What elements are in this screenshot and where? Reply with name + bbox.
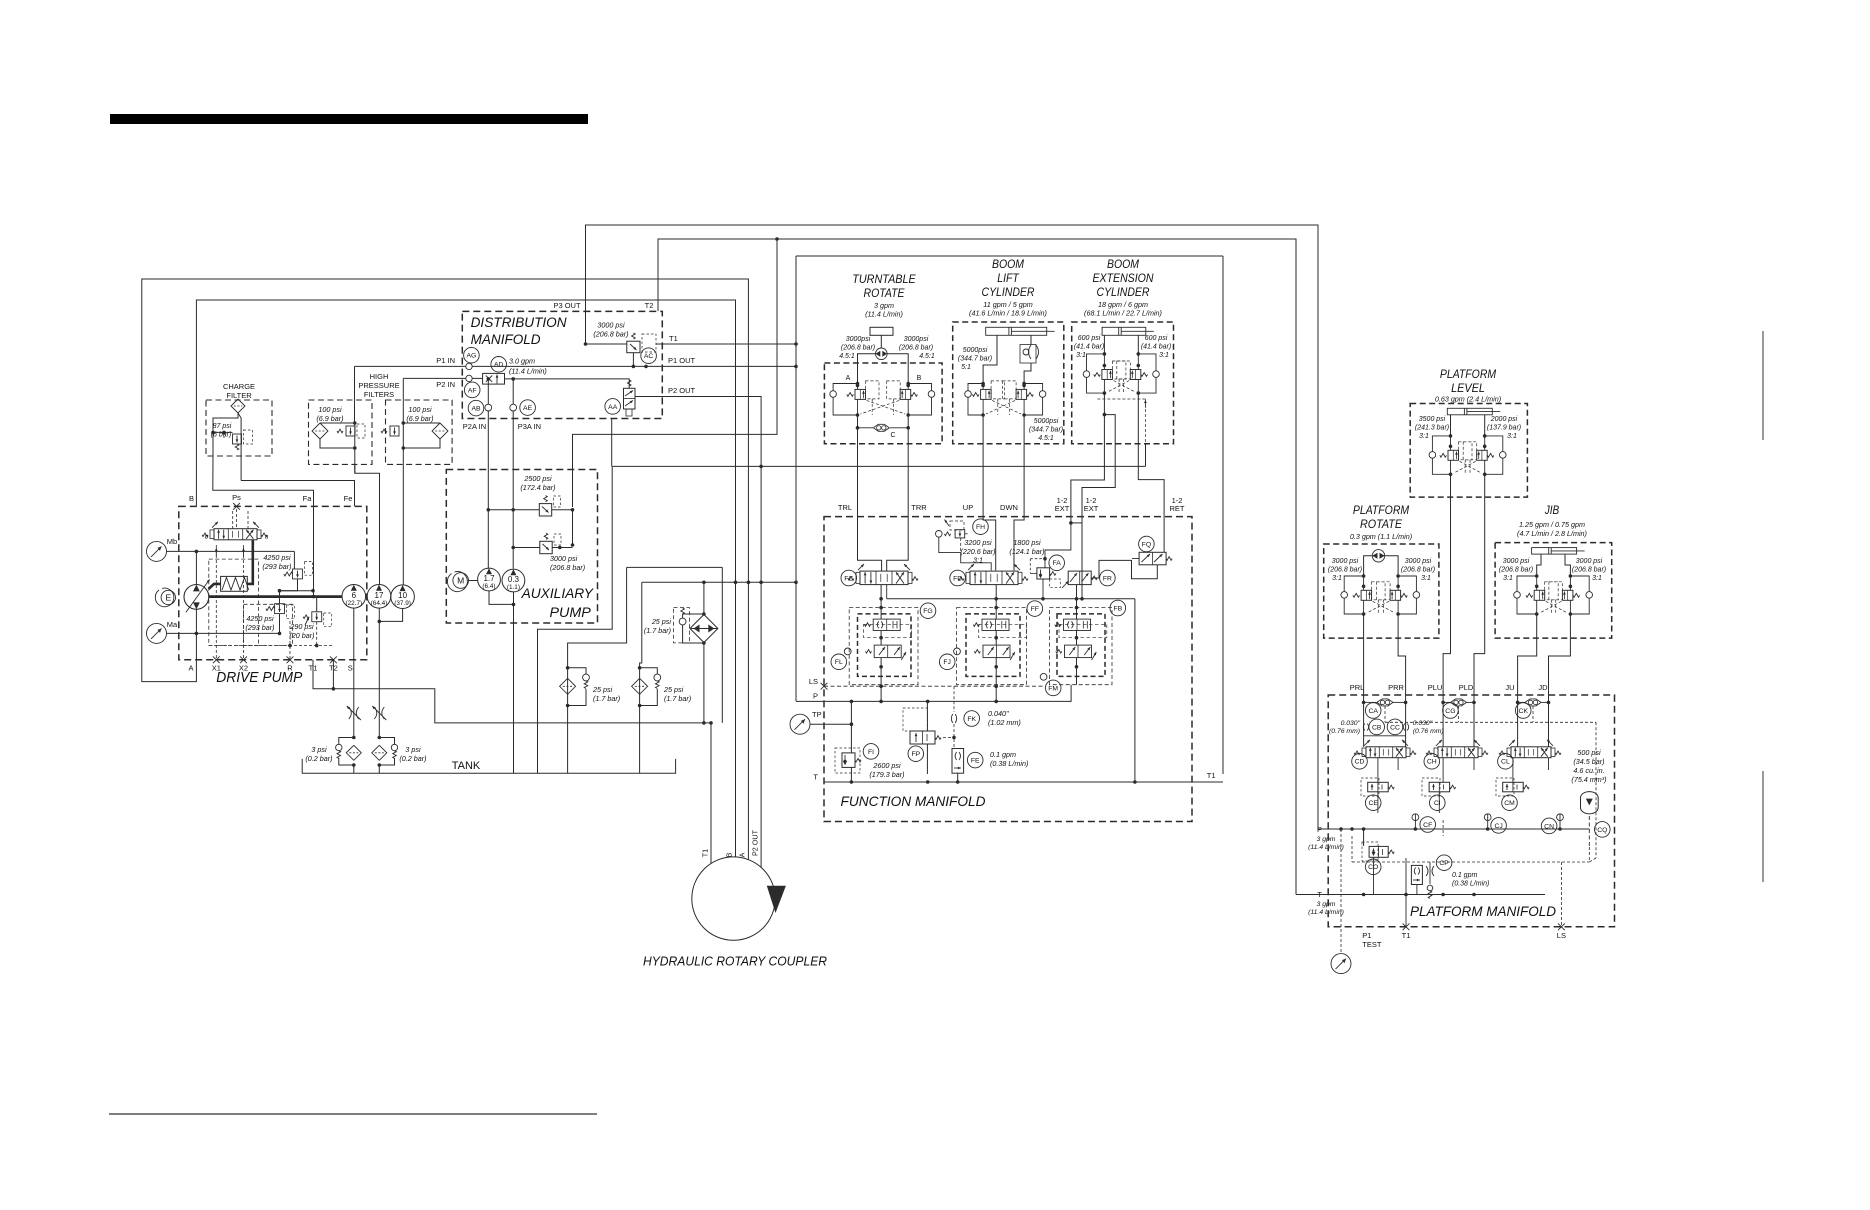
svg-text:P2 OUT: P2 OUT bbox=[668, 386, 696, 395]
HP1 internals bbox=[354, 366, 356, 423]
svg-text:1.25 gpm / 0.75 gpm: 1.25 gpm / 0.75 gpm bbox=[1519, 520, 1585, 529]
port circle P2A bbox=[485, 404, 492, 411]
circle CN bbox=[1541, 818, 1557, 834]
circle FQ bbox=[1139, 536, 1155, 552]
svg-text:4.6 cu. in.: 4.6 cu. in. bbox=[1573, 766, 1604, 775]
electric motor E bbox=[161, 590, 175, 604]
svg-text:3:1: 3:1 bbox=[1419, 433, 1429, 440]
wire 2500 rail bbox=[488, 509, 539, 511]
svg-text:TURNTABLE: TURNTABLE bbox=[852, 272, 916, 286]
CB valve FB top bbox=[1064, 619, 1091, 630]
wire PLD column bbox=[1474, 474, 1485, 747]
svg-text:A: A bbox=[738, 852, 747, 857]
relief valve charge 87psi bbox=[233, 434, 242, 444]
circle AG bbox=[464, 347, 480, 363]
svg-text:T: T bbox=[813, 773, 818, 782]
svg-text:X1: X1 bbox=[212, 664, 221, 673]
svg-text:4250 psi: 4250 psi bbox=[246, 614, 274, 623]
cylinder jib bbox=[1532, 548, 1577, 555]
right margin tick lower bbox=[1762, 771, 1764, 882]
svg-text:Ma: Ma bbox=[167, 620, 178, 629]
circle CA bbox=[1365, 703, 1381, 719]
tank symbol bbox=[302, 759, 675, 773]
junction P1 OUT on left edge bbox=[794, 365, 798, 369]
wire HP1 to pump17 bbox=[355, 464, 380, 584]
svg-text:TRR: TRR bbox=[911, 503, 927, 512]
gauge Ma bbox=[147, 623, 167, 643]
wire 290 column bbox=[316, 597, 318, 612]
circle FF bbox=[1027, 601, 1043, 617]
boom extension box bbox=[1072, 322, 1174, 444]
svg-text:3000 psi: 3000 psi bbox=[597, 321, 625, 330]
svg-text:(4.7 L/min / 2.8 L/min): (4.7 L/min / 2.8 L/min) bbox=[1517, 529, 1587, 538]
svg-text:3000psi: 3000psi bbox=[846, 336, 871, 343]
wire T rail platform bbox=[1296, 894, 1545, 896]
svg-text:290 psi: 290 psi bbox=[289, 622, 314, 631]
svg-text:P1 IN: P1 IN bbox=[436, 356, 455, 365]
wire P3A column bbox=[512, 379, 514, 404]
svg-text:6: 6 bbox=[352, 591, 357, 600]
orifice crossbar PR bbox=[1364, 735, 1406, 737]
wire drive T1 return to coupler bbox=[313, 660, 711, 864]
svg-text:Fe: Fe bbox=[344, 494, 353, 503]
dashed servo pilot box 1 bbox=[209, 559, 259, 646]
title bar bbox=[110, 114, 588, 124]
svg-text:(11.4 L/min): (11.4 L/min) bbox=[1308, 844, 1344, 851]
CB valve FF bottom bbox=[983, 645, 1010, 658]
wire pair1 to tank bbox=[353, 765, 355, 773]
CB valve FG bottom bbox=[874, 645, 901, 658]
wire FK column dashed bbox=[953, 686, 955, 712]
svg-text:(34.5 bar): (34.5 bar) bbox=[1573, 757, 1604, 766]
wire mid return drop to tank bbox=[538, 466, 613, 773]
svg-text:CH: CH bbox=[1427, 759, 1437, 766]
circle FI bbox=[863, 744, 879, 760]
svg-text:0.63 gpm (2.4 L/min): 0.63 gpm (2.4 L/min) bbox=[1435, 395, 1501, 404]
circle AF bbox=[464, 382, 480, 398]
wire CO column bbox=[1363, 829, 1365, 846]
svg-text:0.030": 0.030" bbox=[1413, 720, 1433, 727]
svg-text:EXTENSION: EXTENSION bbox=[1093, 271, 1154, 285]
check CN bbox=[1557, 814, 1564, 821]
svg-text:JIB: JIB bbox=[1544, 503, 1559, 517]
svg-text:(172.4 bar): (172.4 bar) bbox=[520, 483, 555, 492]
svg-text:87 psi: 87 psi bbox=[213, 423, 232, 430]
svg-text:FM: FM bbox=[1048, 685, 1058, 692]
wire EXT join bbox=[1071, 522, 1082, 524]
cylinder platform level bbox=[1447, 408, 1492, 415]
counterbalance cluster FB outer bbox=[1049, 608, 1112, 685]
svg-text:BOOM: BOOM bbox=[1107, 257, 1139, 271]
circle CB bbox=[1369, 719, 1385, 735]
wire charge to Fa bbox=[213, 432, 314, 506]
flow control AD bbox=[483, 373, 505, 384]
gauge TP bbox=[790, 714, 810, 734]
wire PL branches bbox=[1450, 415, 1452, 436]
dashed BE pilot rail bbox=[1097, 398, 1145, 400]
svg-text:25 psi: 25 psi bbox=[592, 685, 613, 694]
throttle valve pump17 drain bbox=[374, 707, 384, 719]
drive pump box bbox=[179, 506, 367, 659]
wire pump17 drain bbox=[378, 608, 380, 737]
relief valve 290 psi bbox=[312, 612, 322, 622]
dashed FP pilot bbox=[903, 708, 927, 731]
svg-text:FG: FG bbox=[923, 608, 932, 615]
wire PR branches bbox=[1364, 556, 1373, 576]
orifice FK bbox=[951, 714, 956, 723]
svg-text:AUXILIARY: AUXILIARY bbox=[521, 585, 595, 601]
wire Ma bbox=[166, 632, 279, 634]
filter bidirectional bypass bbox=[690, 615, 718, 643]
svg-text:3000 psi: 3000 psi bbox=[1405, 558, 1432, 565]
wire pair A column bbox=[567, 668, 569, 773]
svg-text:P2 OUT: P2 OUT bbox=[751, 829, 760, 856]
valve FC bbox=[860, 571, 908, 585]
circle FR bbox=[1100, 570, 1116, 586]
function manifold box bbox=[824, 517, 1192, 822]
HP filter box 2 bbox=[386, 400, 453, 464]
valve CH bbox=[1438, 747, 1478, 758]
circle FD bbox=[950, 570, 966, 586]
svg-text:(75.4 mm³): (75.4 mm³) bbox=[1571, 775, 1606, 784]
circle CK bbox=[1515, 703, 1531, 719]
svg-text:25 psi: 25 psi bbox=[651, 617, 672, 626]
svg-text:25 psi: 25 psi bbox=[663, 685, 684, 694]
counterbalance cluster FG outer bbox=[849, 608, 918, 685]
svg-text:FR: FR bbox=[1103, 575, 1112, 582]
port circle FM bbox=[1040, 673, 1047, 680]
wire AC to P1 bbox=[632, 353, 634, 367]
svg-text:DWN: DWN bbox=[1000, 503, 1018, 512]
LS port mark bbox=[821, 683, 828, 690]
wire P1 test dashed bbox=[1340, 829, 1342, 953]
wire function supply left edge bbox=[795, 256, 797, 701]
wire bypass drop x722 bbox=[721, 567, 723, 723]
shuttle CK bbox=[1525, 699, 1541, 706]
wire T riser bbox=[1134, 599, 1136, 782]
relief valve HP1 bbox=[346, 426, 355, 436]
junction T2 stub bbox=[332, 687, 336, 691]
svg-text:(1.02 mm): (1.02 mm) bbox=[988, 718, 1021, 727]
circle CQ bbox=[1595, 822, 1611, 838]
svg-text:P2 IN: P2 IN bbox=[436, 380, 455, 389]
wire EXT column 1 bbox=[1071, 393, 1105, 523]
svg-text:P2A IN: P2A IN bbox=[463, 422, 486, 431]
svg-text:CB: CB bbox=[1372, 724, 1382, 731]
dashed LS collector bbox=[1351, 836, 1353, 862]
platform level box bbox=[1410, 404, 1527, 498]
svg-text:PRESSURE: PRESSURE bbox=[358, 381, 399, 390]
svg-text:5:1: 5:1 bbox=[961, 364, 971, 371]
svg-text:E: E bbox=[165, 593, 171, 603]
svg-text:(41.4 bar): (41.4 bar) bbox=[1141, 344, 1171, 351]
svg-text:T1: T1 bbox=[1207, 771, 1216, 780]
svg-text:FK: FK bbox=[967, 716, 976, 723]
svg-text:4.5:1: 4.5:1 bbox=[839, 353, 855, 360]
svg-text:CHARGE: CHARGE bbox=[223, 382, 255, 391]
wire Fa column bbox=[313, 506, 315, 596]
svg-text:EXT: EXT bbox=[1084, 504, 1099, 513]
svg-text:(124.1 bar): (124.1 bar) bbox=[1009, 547, 1044, 556]
svg-text:FB: FB bbox=[1113, 605, 1122, 612]
HP filter box 1 bbox=[309, 400, 373, 464]
valve CI bbox=[1429, 782, 1450, 792]
svg-text:LS: LS bbox=[809, 677, 818, 686]
svg-text:AA: AA bbox=[608, 404, 618, 411]
check CJ bbox=[1484, 814, 1491, 821]
wire aux pump suction bbox=[489, 591, 514, 605]
svg-text:AB: AB bbox=[471, 406, 481, 413]
wire T2 drop to aux relief rail bbox=[573, 239, 778, 507]
svg-text:2600 psi: 2600 psi bbox=[872, 761, 901, 770]
wire pump10 drain elbow bbox=[379, 609, 402, 622]
svg-text:PLATFORM: PLATFORM bbox=[1440, 367, 1496, 381]
svg-text:(206.8 bar): (206.8 bar) bbox=[593, 330, 628, 339]
wire 3000 rail bbox=[513, 547, 540, 549]
svg-text:4.5:1: 4.5:1 bbox=[1038, 435, 1054, 442]
valve FA bbox=[1037, 568, 1050, 579]
svg-text:CM: CM bbox=[1504, 800, 1515, 807]
svg-text:CA: CA bbox=[1368, 708, 1378, 715]
wire FI column bbox=[850, 701, 852, 753]
valve AA bbox=[624, 388, 636, 409]
svg-text:FI: FI bbox=[868, 749, 874, 756]
svg-text:3000 psi: 3000 psi bbox=[550, 554, 578, 563]
circle FE bbox=[967, 752, 983, 768]
svg-text:0.3: 0.3 bbox=[508, 575, 520, 584]
svg-text:ROTATE: ROTATE bbox=[864, 286, 906, 300]
wire T2 to platform T feed bbox=[658, 239, 1296, 895]
svg-text:B: B bbox=[189, 494, 194, 503]
svg-text:(206.8 bar): (206.8 bar) bbox=[1572, 567, 1606, 574]
counterbalance cluster PR bbox=[1344, 576, 1363, 591]
svg-text:TP: TP bbox=[812, 710, 822, 719]
circle CD bbox=[1352, 754, 1368, 770]
wire drive T2 stub bbox=[332, 660, 334, 689]
filter 25psi pair A bbox=[560, 678, 576, 694]
circle AA bbox=[605, 399, 621, 415]
valve FH bbox=[955, 530, 965, 538]
svg-text:3:1: 3:1 bbox=[973, 556, 983, 565]
wire function supply right edge bbox=[1222, 256, 1224, 774]
T1 port mark bbox=[1403, 923, 1410, 930]
svg-text:1.7: 1.7 bbox=[483, 574, 495, 583]
filter 3psi pair1 bbox=[346, 745, 361, 760]
svg-text:(293 bar): (293 bar) bbox=[262, 562, 291, 571]
junction coupler T line bbox=[709, 721, 713, 725]
svg-text:PLD: PLD bbox=[1459, 683, 1474, 692]
wire P rail platform bbox=[1318, 828, 1589, 830]
svg-text:CQ: CQ bbox=[1597, 827, 1607, 834]
svg-text:M: M bbox=[457, 576, 464, 586]
rotate actuator bbox=[870, 327, 893, 335]
wire PRR column bbox=[1398, 614, 1406, 747]
relief valve AC 3000psi bbox=[627, 341, 640, 353]
LS rail dashed bbox=[824, 685, 1044, 687]
svg-text:3:1: 3:1 bbox=[1159, 352, 1169, 359]
svg-text:3 gpm: 3 gpm bbox=[1317, 901, 1336, 908]
accumulator bbox=[1581, 792, 1599, 814]
svg-text:A: A bbox=[846, 375, 851, 382]
svg-text:T2: T2 bbox=[329, 664, 338, 673]
svg-text:C: C bbox=[890, 432, 895, 439]
circle FC bbox=[841, 570, 857, 586]
junction return rail bbox=[702, 581, 706, 585]
svg-text:3000psi: 3000psi bbox=[904, 336, 929, 343]
svg-text:LS: LS bbox=[1557, 931, 1566, 940]
wire FG column bbox=[880, 585, 882, 620]
port circle FJ bbox=[954, 648, 961, 655]
pump section 17 bbox=[367, 585, 391, 609]
svg-text:4250 psi: 4250 psi bbox=[263, 553, 291, 562]
svg-text:FE: FE bbox=[971, 758, 980, 765]
svg-text:5000psi: 5000psi bbox=[963, 347, 988, 354]
svg-text:MANIFOLD: MANIFOLD bbox=[471, 331, 541, 347]
valve CD bbox=[1366, 747, 1406, 758]
wire B loop drive pump to coupler bbox=[196, 300, 735, 857]
svg-text:FF: FF bbox=[1031, 606, 1039, 613]
svg-text:3200 psi: 3200 psi bbox=[964, 538, 992, 547]
check CF bbox=[1412, 814, 1419, 821]
valve FI 2600psi bbox=[842, 753, 855, 768]
svg-text:(293 bar): (293 bar) bbox=[245, 623, 274, 632]
svg-text:TEST: TEST bbox=[1362, 940, 1382, 949]
shuttle CA bbox=[1377, 699, 1393, 706]
svg-text:0.040": 0.040" bbox=[988, 709, 1009, 718]
turntable rotate box bbox=[824, 363, 942, 444]
svg-text:(11.4 L/min): (11.4 L/min) bbox=[1308, 909, 1344, 916]
svg-text:0.1 gpm: 0.1 gpm bbox=[990, 750, 1016, 759]
svg-text:b: b bbox=[205, 534, 209, 541]
svg-text:P: P bbox=[813, 692, 818, 701]
circle CL bbox=[1498, 754, 1514, 770]
circle FB bbox=[1110, 600, 1126, 616]
wire charge to Fe bbox=[241, 481, 354, 507]
wire P2A column bbox=[487, 379, 489, 404]
orifice CC bbox=[1403, 724, 1408, 731]
svg-text:PLATFORM: PLATFORM bbox=[1353, 503, 1409, 517]
wire FB column bbox=[1076, 585, 1078, 620]
wire P1 OUT to function supply bbox=[662, 365, 796, 367]
svg-text:CL: CL bbox=[1501, 759, 1510, 766]
svg-text:PUMP: PUMP bbox=[550, 604, 592, 620]
motor M aux bbox=[453, 573, 469, 589]
svg-text:5000psi: 5000psi bbox=[1034, 418, 1059, 425]
svg-text:(137.9 bar): (137.9 bar) bbox=[1487, 425, 1521, 432]
svg-text:BOOM: BOOM bbox=[992, 257, 1024, 271]
circle CM bbox=[1502, 795, 1518, 811]
wire P rail bbox=[796, 685, 1071, 702]
circle CP bbox=[1436, 855, 1452, 871]
wire pair B column bbox=[640, 582, 642, 668]
svg-text:FL: FL bbox=[835, 659, 843, 666]
circle AB bbox=[468, 400, 484, 416]
svg-text:CD: CD bbox=[1355, 759, 1365, 766]
svg-text:B: B bbox=[917, 375, 922, 382]
svg-text:PRL: PRL bbox=[1350, 683, 1365, 692]
charge filter box bbox=[206, 400, 272, 456]
valve CL bbox=[1511, 747, 1551, 758]
wire boom ext branches bbox=[1103, 335, 1105, 354]
relief valve 4250 bottom bbox=[275, 604, 285, 614]
gauge Mb bbox=[147, 541, 167, 561]
svg-text:(6.9 bar): (6.9 bar) bbox=[406, 414, 433, 423]
LS port mark bbox=[1558, 923, 1565, 930]
svg-text:(344.7 bar): (344.7 bar) bbox=[958, 356, 992, 363]
svg-text:(37.9): (37.9) bbox=[394, 600, 411, 607]
svg-text:UP: UP bbox=[963, 503, 973, 512]
wire pump column upper B bbox=[195, 551, 197, 584]
circle CE bbox=[1365, 795, 1381, 811]
boom lift box bbox=[953, 322, 1064, 444]
circle FP bbox=[908, 746, 924, 762]
svg-text:B: B bbox=[725, 852, 734, 857]
svg-text:(64.4): (64.4) bbox=[371, 600, 388, 607]
wire valve supply rail bbox=[887, 598, 1135, 600]
wire T rail bbox=[824, 781, 1223, 783]
circle FM bbox=[1045, 680, 1061, 696]
svg-text:JD: JD bbox=[1538, 683, 1548, 692]
distribution manifold box bbox=[462, 311, 662, 418]
wire AD out to AA bbox=[505, 379, 630, 388]
counterbalance cluster FF outer bbox=[957, 608, 1027, 685]
wire FA drop bbox=[1045, 523, 1071, 568]
svg-text:FUNCTION MANIFOLD: FUNCTION MANIFOLD bbox=[841, 793, 986, 809]
svg-text:FP: FP bbox=[911, 751, 920, 758]
svg-text:(1.1): (1.1) bbox=[507, 584, 520, 591]
wire P2A below box bbox=[487, 411, 489, 569]
valve CO bbox=[1369, 846, 1388, 857]
wire y466 rise to box bbox=[1145, 444, 1147, 467]
dashed pilot rail bbox=[209, 645, 333, 647]
circle FH bbox=[973, 519, 989, 535]
motor platform rotate bbox=[1372, 550, 1384, 562]
dashed box bypass check bbox=[674, 608, 690, 643]
wire RET column bbox=[1138, 393, 1164, 552]
svg-text:(1.7 bar): (1.7 bar) bbox=[644, 626, 671, 635]
wire PRL column bbox=[1363, 614, 1365, 747]
wire Ps dashed to servo bbox=[236, 509, 238, 529]
counterbalance cluster PL bbox=[1432, 436, 1450, 452]
svg-text:(0.76 mm): (0.76 mm) bbox=[1413, 728, 1444, 735]
auxiliary pump box bbox=[446, 470, 597, 624]
svg-text:3 psi: 3 psi bbox=[311, 745, 327, 754]
bold servo link bbox=[247, 540, 253, 584]
wire TT motor branches bbox=[858, 354, 876, 384]
svg-text:3:1: 3:1 bbox=[1592, 575, 1602, 582]
platform manifold box bbox=[1328, 695, 1614, 927]
wire JD column bbox=[1549, 614, 1571, 747]
svg-text:T1: T1 bbox=[669, 334, 678, 343]
dashed valve top links bbox=[232, 511, 234, 529]
svg-text:3.0 gpm: 3.0 gpm bbox=[509, 357, 535, 366]
coupler direction triangle bbox=[767, 886, 786, 913]
svg-text:P3 OUT: P3 OUT bbox=[553, 301, 581, 310]
svg-text:3500 psi: 3500 psi bbox=[1419, 416, 1446, 423]
circle FL bbox=[831, 654, 847, 670]
wire assembly column bbox=[703, 582, 705, 614]
valve FD bbox=[970, 571, 1018, 585]
port mark Ps bbox=[233, 503, 240, 510]
relief valve 4250 top bbox=[293, 569, 303, 579]
wire x611 from AA down bbox=[611, 419, 613, 467]
LS shuttle rail dashed bbox=[1384, 706, 1386, 722]
svg-text:T1: T1 bbox=[309, 664, 318, 673]
wire platform valve columns bbox=[1442, 758, 1444, 783]
cylinder boom lift bbox=[986, 327, 1047, 335]
svg-text:HIGH: HIGH bbox=[370, 372, 389, 381]
circle FG bbox=[920, 603, 936, 619]
